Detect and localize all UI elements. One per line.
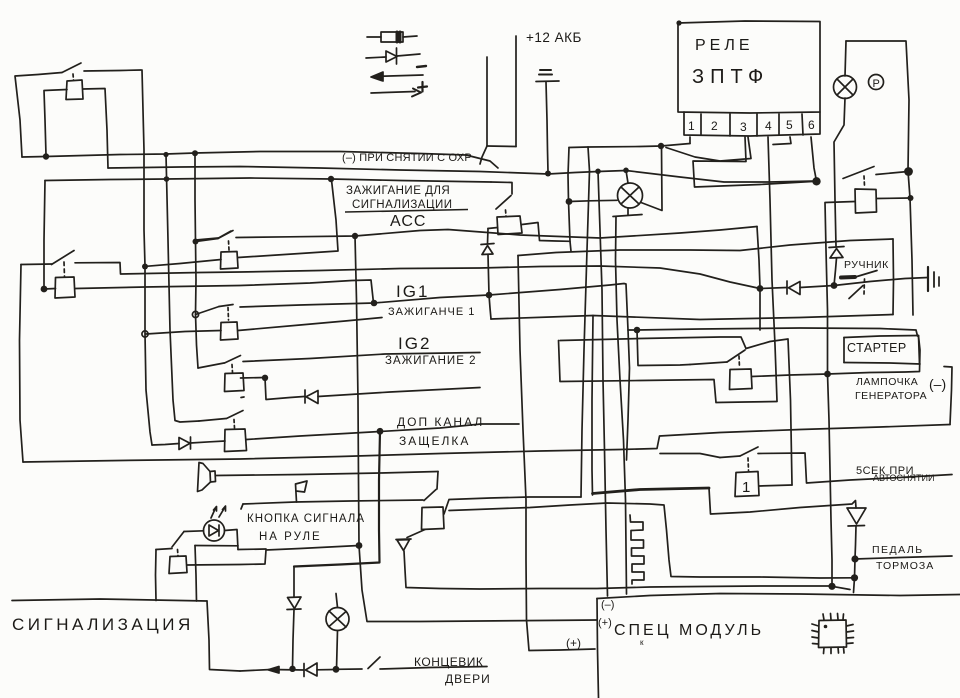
wire x380 thick drop [294, 431, 380, 566]
svg-text:(+): (+) [566, 636, 581, 650]
relay K1 coil [66, 80, 83, 100]
wire x195b drop [195, 546, 197, 602]
svg-text:ПЕДАЛЬ: ПЕДАЛЬ [872, 544, 924, 556]
wire x828 long vertical [828, 374, 833, 586]
wire stub to node x637 [628, 329, 637, 331]
switch S-B arm [219, 305, 233, 307]
wire relay C left bits [241, 377, 266, 380]
wire x637 to switch feed [637, 330, 690, 366]
wire bracket lampochka minus [944, 367, 952, 425]
wire pin3 route to node [693, 137, 816, 187]
wire relay L out [187, 546, 359, 566]
wire diode H to ground [800, 278, 928, 288]
wire step x588 [588, 147, 590, 171]
wire main feed y146 [569, 144, 690, 148]
wire ACC vertical x356 long [355, 236, 359, 545]
wire w2 tail [832, 586, 850, 589]
lamp L2 circle [618, 183, 643, 208]
relay pin row box [684, 112, 820, 136]
pin divider 5|6 [802, 114, 803, 135]
wire long vertical x600 [598, 172, 608, 597]
svg-text:(–) ПРИ СНЯТИИ С ОХР: (–) ПРИ СНЯТИИ С ОХР [342, 152, 472, 164]
wire ACC drop x758 [757, 227, 760, 289]
wire relay D out DOP KANAL [247, 424, 520, 440]
switch S-door arm [368, 657, 380, 669]
wire lamp3 stubs [337, 631, 338, 670]
wire speaker out [216, 472, 439, 476]
node IG1 switch [142, 264, 148, 270]
wire pin6 drop [811, 137, 816, 180]
wire diode G vertical [293, 567, 295, 597]
node S-B pivot ring [192, 311, 198, 317]
wire bus diode to lamp node [317, 669, 336, 671]
wire K1 left down [44, 90, 67, 156]
node y146-x661 [658, 143, 664, 149]
wire ruchnik line [760, 288, 787, 289]
diode G (down) [288, 597, 302, 609]
wire U hook down [480, 146, 487, 164]
wire pedal tormoza [855, 556, 952, 559]
indicator P circle [869, 75, 884, 90]
wire x265 down and diode line [265, 378, 304, 400]
diode N vertical (bar top) [481, 244, 494, 245]
wire x143 to diode E [152, 444, 179, 446]
relay K coil (lampochka) [730, 369, 753, 390]
node zazh1-x637 [634, 327, 641, 334]
svg-text:НА РУЛЕ: НА РУЛЕ [259, 531, 322, 543]
wire 5sek jog out [758, 453, 952, 483]
wire U left leg [486, 57, 488, 146]
wire pedal vertical to module [854, 559, 856, 593]
wire bottom bus [240, 670, 304, 672]
svg-text:АСС: АСС [390, 213, 426, 230]
relay box RELE ZPTF [678, 21, 820, 113]
svg-text:Р: Р [873, 78, 880, 90]
wire vertical x143 long [142, 70, 152, 445]
underline signalizacii [345, 210, 468, 213]
svg-text:ЗАЖИГАНИЕ ДЛЯ: ЗАЖИГАНИЕ ДЛЯ [346, 185, 450, 197]
wire node to relay B [146, 331, 221, 335]
svg-text:ДВЕРИ: ДВЕРИ [445, 672, 491, 686]
node ruchnik-x834 [831, 282, 838, 289]
wire w_a long (sign bus to bracket) [23, 425, 950, 463]
node narule-x359 [356, 542, 363, 549]
wire ohr upper line [46, 152, 498, 169]
node ohr-x166 [163, 152, 168, 157]
wire x569 up and across y146 [568, 148, 571, 252]
wire relay M left [488, 228, 498, 229]
svg-text:IG1: IG1 [396, 282, 429, 301]
node relay B left ring [142, 331, 148, 337]
wire horn button line [243, 500, 423, 504]
wire relay M2 right [877, 197, 911, 200]
node x569 [566, 198, 573, 205]
chip U1 body [819, 620, 847, 648]
wire relay M2 left corner down [825, 202, 855, 375]
wire relay M right to node [522, 223, 570, 242]
switch ruchnik contact [841, 275, 855, 280]
wire x166 vertical long [166, 155, 199, 423]
wire relay B out [238, 318, 382, 331]
svg-text:(+): (+) [598, 617, 612, 629]
wire long vertical x616 to module [616, 217, 627, 595]
wire vertical x195 long [195, 153, 198, 368]
switch S-IG1 arm [52, 251, 75, 265]
svg-text:ДОП КАНАЛ: ДОП КАНАЛ [397, 415, 484, 429]
wire switch S1 to vertical [84, 70, 141, 71]
wire switch S8 out [876, 172, 908, 175]
relay R1 coil box [735, 472, 759, 497]
wire x893 loop vertical [892, 239, 895, 315]
wire LED left + switch arm [184, 530, 204, 533]
module box left [597, 599, 599, 698]
svg-text:ЗАЖИГАНЧЕ 1: ЗАЖИГАНЧЕ 1 [388, 306, 475, 318]
svg-text:РЕЛЕ: РЕЛЕ [695, 37, 754, 54]
node ohr-x598 [595, 169, 601, 175]
switch S-D arm (zashchelka) [199, 419, 226, 422]
svg-text:(–): (–) [929, 376, 946, 392]
wire ACC line [236, 227, 757, 239]
wire w-wavy1 [449, 503, 855, 578]
node x908 blob [904, 167, 913, 176]
node w2-x832 [828, 583, 835, 590]
svg-text:к: к [640, 638, 644, 647]
relay C coil (IG2) [225, 373, 245, 392]
tall right box [846, 41, 909, 171]
svg-text:5: 5 [786, 118, 793, 132]
plus arrow legend [371, 92, 415, 94]
svg-text:IG2: IG2 [398, 334, 431, 353]
svg-text:СПЕЦ МОДУЛЬ: СПЕЦ МОДУЛЬ [614, 622, 764, 639]
node k2 left [41, 286, 48, 293]
arrow marker on bus [268, 667, 279, 674]
svg-text:СИГНАЛИЗАЦИИ: СИГНАЛИЗАЦИИ [352, 199, 453, 211]
sign box top [12, 599, 207, 601]
diode E (right pointing) [179, 438, 190, 450]
wire K1 right to lower bus [83, 89, 108, 169]
node y180-x331 [328, 176, 334, 182]
lamp L3 [326, 608, 349, 631]
wire right box edge down [908, 171, 913, 315]
relay M2 coil (starter guard) [855, 189, 877, 213]
svg-text:(–): (–) [601, 599, 614, 611]
node pedal-top [851, 555, 858, 562]
svg-text:СИГНАЛИЗАЦИЯ: СИГНАЛИЗАЦИЯ [12, 615, 194, 634]
pin divider 1|2 [700, 114, 702, 135]
node bus-x292 [289, 666, 295, 672]
diode legend symbol [366, 57, 386, 58]
wire lamp2 top stub [626, 171, 628, 184]
svg-text:+12 АКБ: +12 АКБ [526, 30, 582, 45]
pin divider 3|4 [756, 114, 758, 136]
wire LED right corner down [225, 530, 239, 550]
relay A coil (IG1) [221, 252, 239, 270]
wire pin5 stub [773, 137, 791, 145]
node ohr-x46 [43, 153, 49, 159]
speaker symbol [210, 471, 216, 482]
wire 5sek switch feed [660, 454, 720, 458]
wire x792 leg [746, 339, 792, 485]
node ACC-x355 [352, 233, 358, 239]
switch S-M arm [496, 196, 511, 210]
wire pin4 long drop [768, 137, 777, 401]
switch S-C arm (IG2) [198, 363, 224, 368]
wire w9 step right [709, 488, 856, 514]
node bus-x336 [333, 666, 340, 673]
node ohr-x626 [623, 168, 629, 174]
svg-text:КОНЦЕВИК: КОНЦЕВИК [414, 655, 483, 669]
LED arrows [211, 507, 217, 519]
switch S-A arm [196, 238, 218, 240]
wire vertical x520 long (+ feed) [518, 256, 595, 651]
switch S-5sek arm [720, 456, 740, 458]
diode I and module feed [407, 530, 425, 538]
relay H coil (horn) [422, 507, 445, 530]
wire x592 dark feed [592, 316, 593, 496]
LED D-led circle [204, 520, 225, 541]
wire top-left box [15, 73, 62, 158]
node dopkanal-x380 [377, 428, 384, 435]
wire left wall vertical [20, 265, 24, 463]
wire x45 drop [44, 181, 45, 289]
node zazh1-x374 [371, 300, 378, 307]
diode D2 (left pointing) [304, 390, 306, 403]
node zazh1-x489 [486, 292, 493, 299]
diode J down to pedal [847, 508, 866, 524]
svg-text:ЗАЖИГАНИЕ 2: ЗАЖИГАНИЕ 2 [385, 355, 476, 367]
battery +12 symbol [539, 70, 552, 75]
wire y246 line to loop [518, 239, 893, 256]
svg-text:4: 4 [765, 119, 772, 133]
wire diode D2 right [318, 388, 480, 397]
node ohr-x816 dark [812, 177, 820, 185]
svg-text:3: 3 [740, 120, 747, 134]
wire x491 link [489, 295, 491, 319]
fuse legend symbol [367, 36, 381, 38]
switch S-ACC arm [196, 239, 219, 242]
starter box [844, 336, 919, 338]
wire U bottom [487, 145, 516, 148]
wire relay K bottom loop [559, 341, 778, 403]
svg-text:ЗПТФ: ЗПТФ [692, 66, 769, 88]
node x910-relay [908, 195, 914, 201]
wire x584 long vertical [581, 171, 590, 497]
node lampochka-x827 [824, 371, 831, 378]
svg-text:РУЧНИК: РУЧНИК [844, 259, 889, 271]
relay D coil (zashchelka) [225, 429, 247, 452]
wire ZAZH1 main [240, 284, 630, 461]
switch S8 guard arm [843, 167, 874, 179]
wire lamp2 right up to node661 [641, 147, 662, 211]
module box top [597, 594, 960, 599]
minus arrow legend [374, 75, 423, 77]
horn button flag [296, 481, 308, 502]
relay B coil [221, 322, 239, 340]
wire led corner join [238, 548, 266, 551]
ground symbol ruchnik [927, 267, 929, 291]
wire diode E to relay D [191, 441, 226, 443]
wire zazh1 to starter [637, 328, 918, 336]
wire S-IG1 out jog [75, 263, 760, 289]
wire ZAZHIGANIE2 line [243, 353, 480, 362]
wire +12 AKB down [546, 82, 548, 172]
wire horn switch drop [437, 472, 438, 490]
wire x155 drop [155, 550, 158, 601]
node pedal-mid [851, 574, 858, 581]
wire node to relay A left [146, 260, 221, 267]
pin divider 4|5 [778, 114, 780, 135]
wire ZAZH1 line [196, 307, 220, 315]
wire sw-L feed [156, 549, 172, 550]
node relay C right [262, 375, 268, 381]
svg-text:ГЕНЕРАТОРА: ГЕНЕРАТОРА [855, 390, 927, 402]
wire bus to door switch [336, 668, 362, 670]
svg-text:КНОПКА СИГНАЛА: КНОПКА СИГНАЛА [247, 513, 365, 525]
comb element [630, 515, 644, 584]
wire node201 to lamp2 [569, 200, 617, 201]
svg-text:АВТОСНЯТИИ: АВТОСНЯТИИ [873, 473, 934, 483]
wire horn hook [241, 504, 243, 509]
diode H (bar left) [786, 281, 788, 294]
wire relay H right [444, 497, 581, 514]
node ohr-x195 [192, 150, 198, 156]
wire pin1 stub [689, 137, 691, 144]
wire y337 to hook [560, 337, 746, 349]
wire relay R1 out [759, 485, 792, 486]
switch S1 top-left arm [62, 63, 81, 73]
wire ohr lower line [108, 167, 816, 183]
node acc-switch [193, 239, 199, 245]
diode G2 above ruchnik (bar top) [829, 247, 844, 248]
node x760 ruchnik [757, 285, 764, 292]
wire x360 to module plus [359, 546, 597, 622]
svg-text:6: 6 [808, 118, 815, 132]
diode F (bar left) [303, 664, 305, 677]
svg-text:ЛАМПОЧКА: ЛАМПОЧКА [856, 376, 918, 388]
svg-text:2: 2 [711, 119, 718, 133]
node y180-x166 [164, 176, 170, 182]
wire left wall top [21, 263, 52, 266]
svg-text:ЗАЩЕЛКА: ЗАЩЕЛКА [399, 434, 470, 448]
relay K2 coil [55, 277, 75, 298]
wire K2 out (IG1 label line) [76, 280, 374, 303]
wire y317 loop line [491, 315, 893, 320]
wire x760 below [759, 289, 761, 331]
wire third line y180 [45, 178, 491, 182]
wire pin2 drop [666, 137, 751, 161]
svg-text:1: 1 [688, 119, 695, 133]
svg-text:СТАРТЕР: СТАРТЕР [847, 341, 907, 355]
svg-text:1: 1 [742, 479, 750, 496]
wire lamp2 bottom stub [627, 208, 629, 215]
lamp R circle [834, 76, 857, 99]
wire dark w9 [593, 488, 710, 494]
relay L coil (siren) [169, 556, 187, 574]
wire relay A right corner up [238, 180, 338, 258]
wire U right leg [515, 36, 517, 147]
relay M coil (ACC relay) [497, 216, 522, 235]
pin divider 2|3 [729, 114, 731, 136]
switch S-K arm [690, 362, 727, 365]
wire box bottom to node [22, 156, 46, 159]
wire zigzag to relay M [491, 182, 512, 194]
node akb-ohr [545, 171, 551, 177]
svg-text:ТОРМОЗА: ТОРМОЗА [876, 560, 934, 572]
chip U1 pins [823, 614, 844, 621]
wire lampochka relay line [752, 336, 921, 377]
sign box right drop [207, 601, 240, 671]
